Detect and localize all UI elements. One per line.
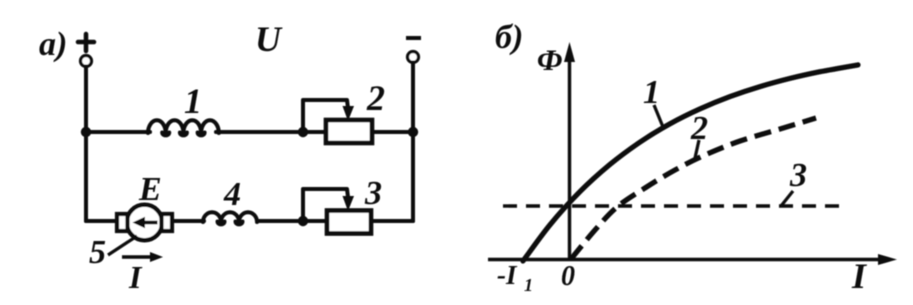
svg-text:5: 5 [89,234,106,271]
machine brush right [162,214,173,231]
terminal + circle [81,56,92,67]
svg-text:U: U [255,19,283,59]
svg-text:3: 3 [364,175,382,212]
rheostat 2 wiper arm [303,100,348,129]
wire top branch right [372,130,413,134]
svg-text:0: 0 [561,261,575,292]
wire bottom between machine and inductor 4 [172,219,204,223]
svg-text:3: 3 [789,157,807,194]
junction right top node [408,127,418,137]
current arrow I [122,255,153,258]
svg-text:I: I [128,259,143,295]
rheostat 3 wiper arrowhead [343,196,355,211]
minus terminal polarity mark [406,36,421,40]
svg-text:Ф: Ф [537,44,563,77]
y-axis [568,58,571,259]
svg-text:1: 1 [524,275,533,295]
svg-text:а): а) [39,26,67,63]
wire left vertical [84,67,88,222]
svg-text:E: E [138,171,162,208]
leader line from 5 to machine [108,236,137,255]
curve 2 dashed [571,118,816,259]
x-axis [488,258,882,261]
rheostat 2 resistor body [326,120,372,143]
junction before rheostat 3 [298,216,308,226]
inductor 1 [148,120,219,133]
junction left top node [81,127,91,137]
tick for curve 1 label [654,105,663,127]
machine brush left [117,214,128,231]
wire bottom right segment [371,219,413,223]
svg-text:1: 1 [184,81,202,121]
svg-text:-I: -I [497,260,518,290]
machine internal emf arrow [142,221,158,225]
rheostat 3 resistor body [327,211,371,234]
wire bottom from left corner [86,219,118,223]
wire bottom middle [257,219,327,223]
wire top branch left [86,130,150,134]
svg-text:4: 4 [223,176,241,213]
curve 1 magnetization solid [523,65,858,261]
machine M armature circle [127,205,163,241]
svg-text:I: I [851,256,868,296]
tick for curve 2 label [695,140,699,158]
wire right vertical [411,63,415,222]
inductor 4 [203,212,257,222]
svg-text:б): б) [495,19,523,56]
svg-text:2: 2 [366,78,385,118]
junction before rheostat 2 [298,127,308,137]
terminal - circle [408,52,419,63]
wire top branch middle [216,130,326,134]
rheostat 2 wiper arrowhead [343,106,355,121]
plus terminal polarity mark [78,34,94,51]
tick for line 3 label [781,191,793,206]
svg-text:1: 1 [643,74,660,111]
rheostat 3 wiper arm [303,189,348,218]
line 3 dashed horizontal [503,204,848,207]
